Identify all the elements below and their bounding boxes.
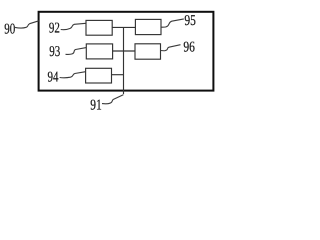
wire row3: block94 to bus [112, 74, 125, 76]
leader line for 93 [66, 48, 87, 55]
svg-text:91: 91 [90, 97, 102, 113]
vertical bus 91 [123, 27, 125, 94]
svg-text:92: 92 [49, 21, 60, 37]
svg-text:93: 93 [49, 44, 60, 60]
leader line for 96 [160, 45, 180, 51]
svg-text:95: 95 [184, 13, 196, 29]
outer enclosure box 90 [39, 12, 214, 91]
svg-text:90: 90 [4, 21, 15, 37]
svg-text:94: 94 [48, 70, 59, 86]
block 95 [135, 19, 161, 34]
leader line for 91 [102, 95, 123, 104]
svg-text:96: 96 [183, 39, 195, 55]
wire row2: block93 to block96 [113, 50, 135, 52]
leader line for 90 [15, 21, 39, 28]
leader line for 92 [61, 23, 86, 29]
block 92 [86, 20, 112, 35]
leader line for 94 [60, 72, 86, 78]
block 94 [86, 68, 112, 83]
block 96 [135, 44, 161, 59]
block 93 [86, 44, 112, 59]
leader line for 95 [161, 19, 184, 27]
wire row1: block92 to block95 [112, 26, 135, 28]
